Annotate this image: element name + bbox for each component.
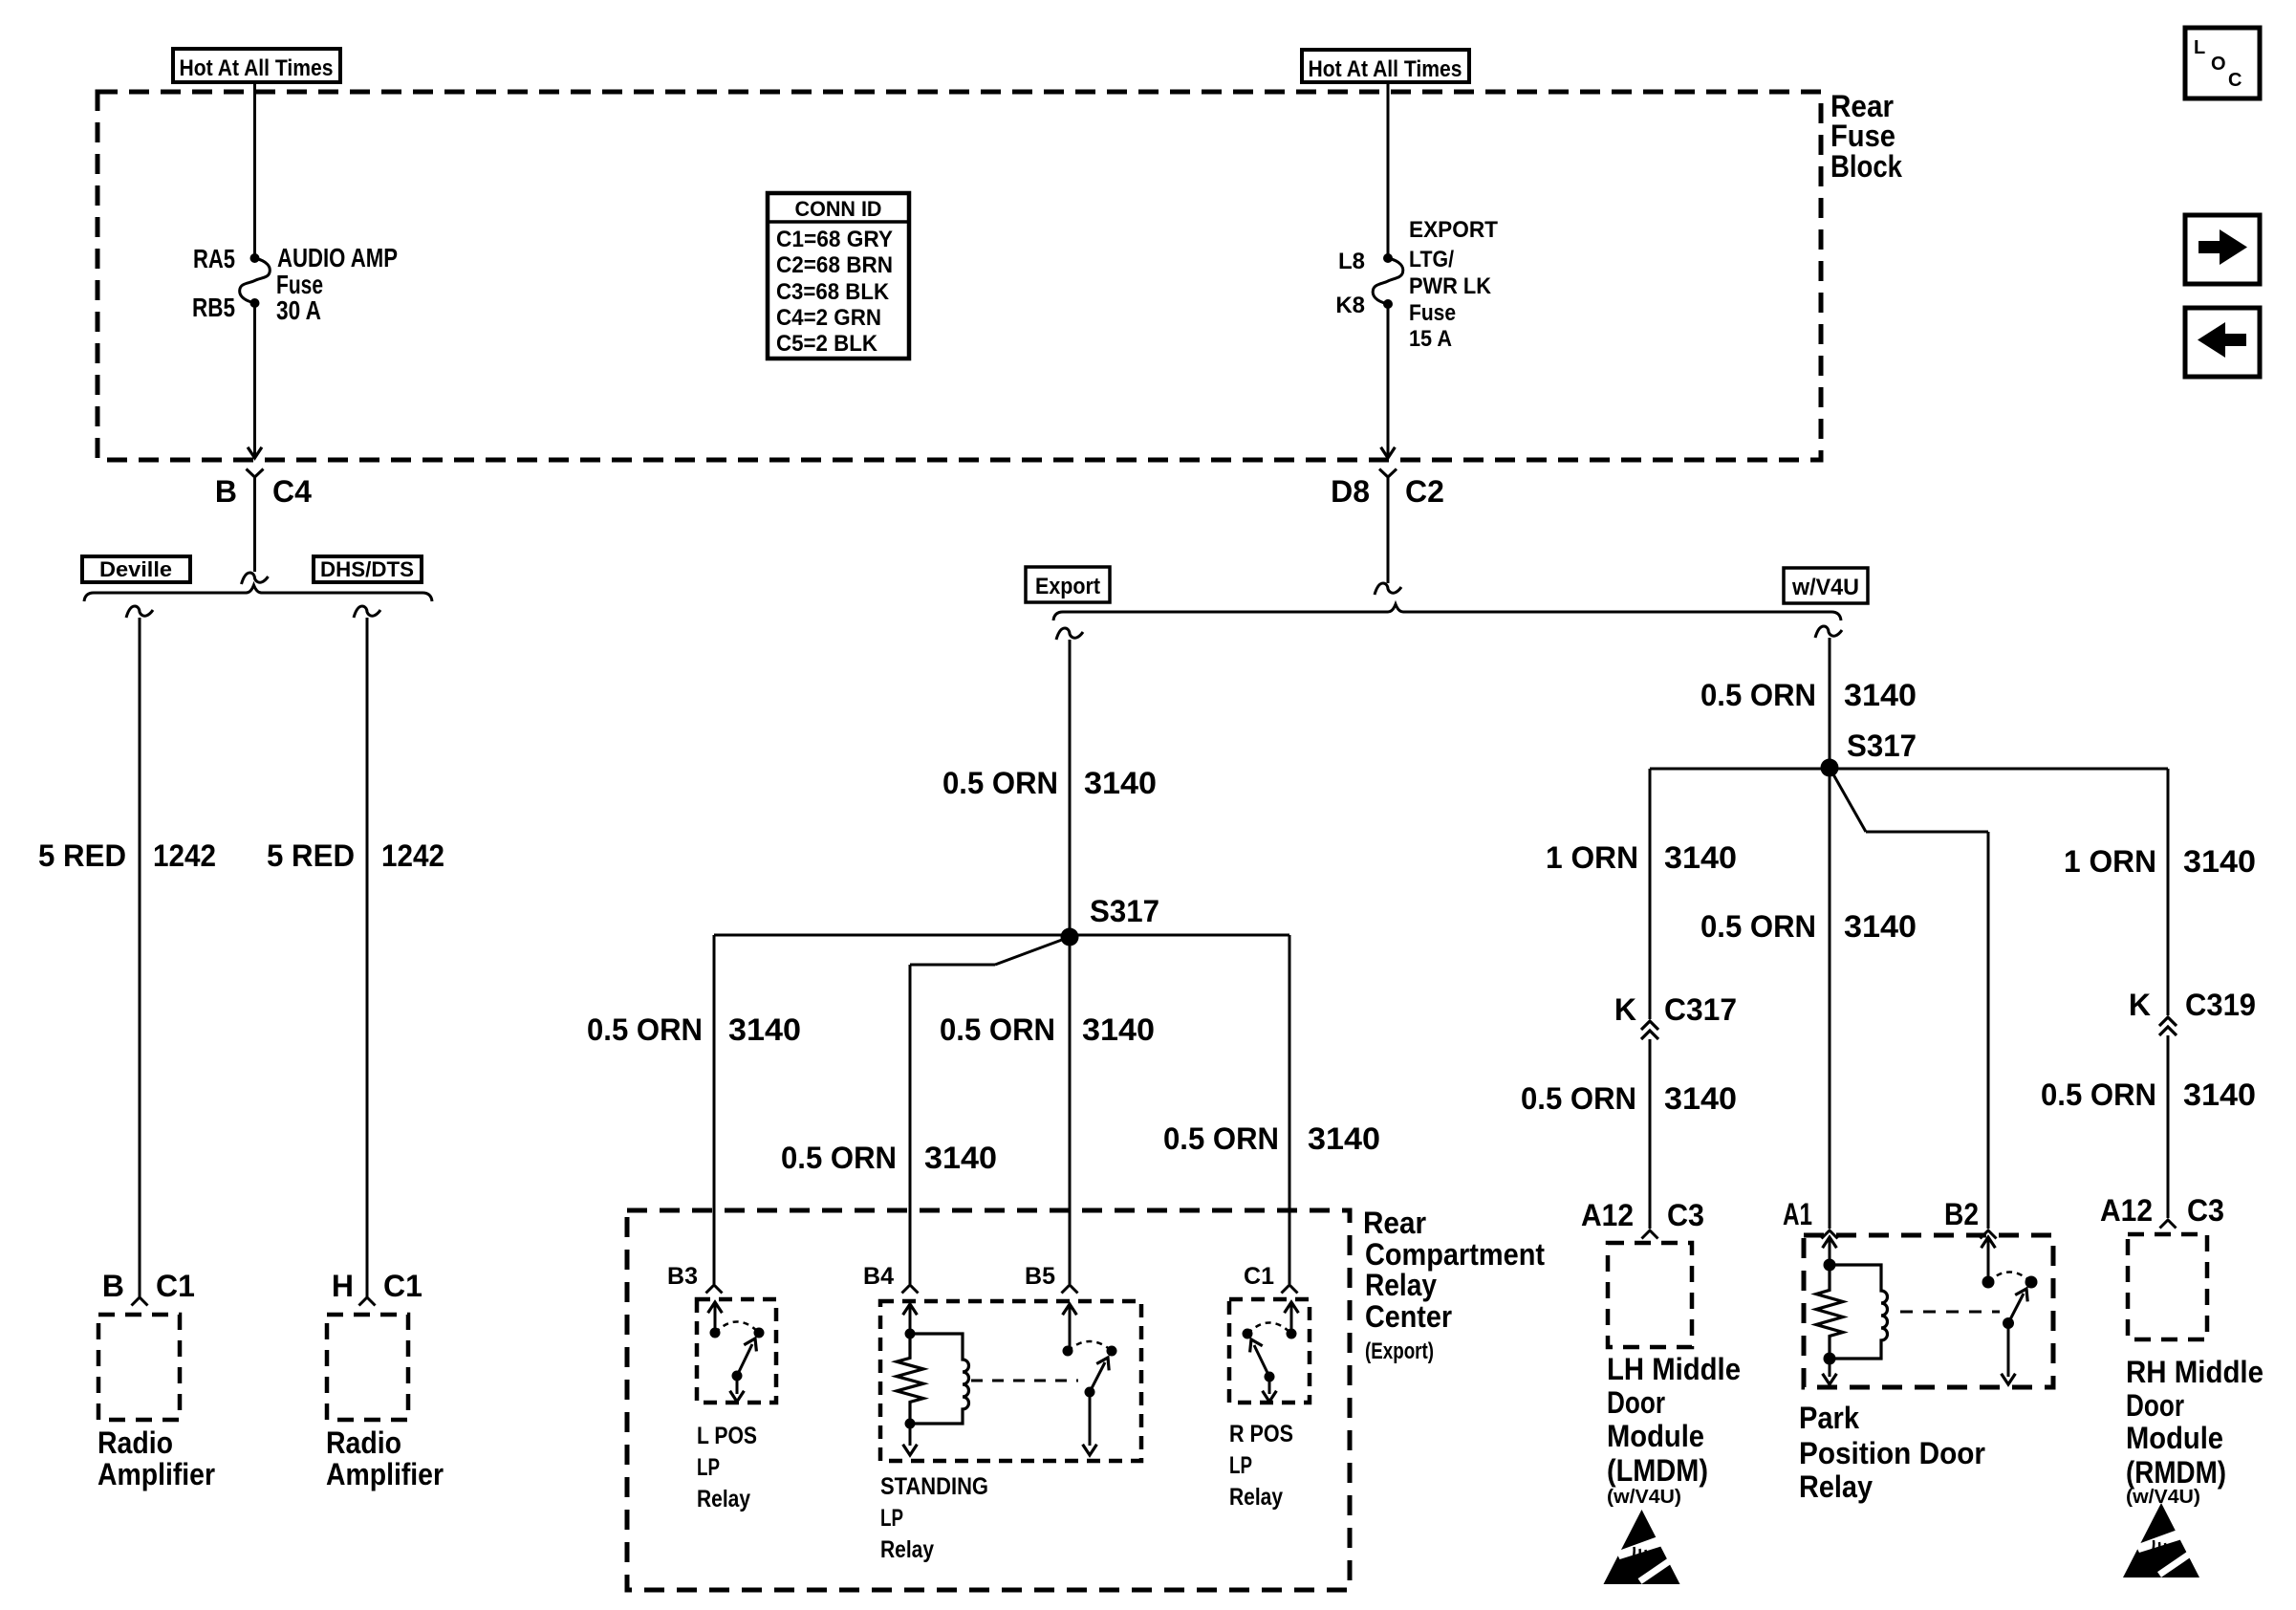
svg-text:0.5 ORN: 0.5 ORN [940,1012,1055,1047]
svg-text:LP: LP [880,1505,903,1532]
relay K-LPOS name [697,1423,757,1512]
svg-text:Hot At All Times: Hot At All Times [180,55,334,81]
svg-text:A12: A12 [2100,1193,2153,1228]
connector C1 pin B (male) [132,1297,148,1306]
label H | C1 (DHS/DTS) [332,1269,422,1303]
svg-text:Relay: Relay [697,1486,750,1512]
svg-text:3140: 3140 [2183,1077,2256,1112]
svg-text:Amplifier: Amplifier [97,1457,215,1491]
wire: right feed from Hot At All Times to fuse L8 [1387,82,1390,258]
svg-text:15 A: 15 A [1409,326,1452,352]
relay K-PARK coil [1830,1265,1888,1359]
svg-text:D8: D8 [1331,474,1370,509]
wire: S317 distribution bus (w/V4U) [1650,769,2168,1019]
option brace (Export / w/V4U) [1053,604,1841,620]
Radio Amplifier (Deville) dashed box [98,1315,180,1420]
svg-text:H: H [332,1269,354,1303]
RH Middle Door Module name [2126,1355,2264,1508]
svg-text:3140: 3140 [924,1141,997,1175]
svg-text:0.5 ORN: 0.5 ORN [1163,1121,1279,1156]
svg-text:C: C [2228,70,2242,91]
svg-text:AUDIO AMP: AUDIO AMP [277,243,398,272]
wire: left feed from Hot At All Times to fuse RA5 [253,82,256,258]
Radio Amplifier (Deville) name [97,1425,215,1491]
svg-text:1242: 1242 [153,838,216,873]
connector pin B3 (male) [667,1263,722,1294]
label 0.5 ORN 3140 (below C319) [2041,1077,2256,1112]
svg-text:RA5: RA5 [193,244,235,273]
svg-text:0.5 ORN: 0.5 ORN [2041,1077,2156,1112]
svg-text:C1: C1 [383,1269,422,1303]
relay K-LPOS feed contact [708,1302,723,1338]
fuse F1 AUDIO AMP 30 A [240,253,271,308]
svg-text:S317: S317 [1090,894,1159,928]
svg-text:PWR LK: PWR LK [1409,273,1492,299]
label B | C1 (Deville) [102,1269,195,1303]
label 0.5 ORN 3140 (B3 wire) [587,1012,801,1047]
svg-text:L: L [2194,37,2205,58]
svg-text:3140: 3140 [728,1012,801,1047]
svg-text:Door: Door [2126,1388,2184,1423]
svg-text:3140: 3140 [1308,1121,1380,1156]
svg-text:(LMDM): (LMDM) [1607,1453,1708,1488]
svg-text:0.5 ORN: 0.5 ORN [942,766,1058,800]
svg-text:RH Middle: RH Middle [2126,1355,2264,1389]
svg-text:R POS: R POS [1229,1421,1293,1447]
relay K-STANDING coil [910,1334,969,1424]
svg-text:Radio: Radio [97,1425,173,1460]
splice S317 (Export) [1061,894,1160,946]
svg-text:Module: Module [2126,1421,2223,1455]
label 5 RED 1242 (DHS/DTS branch) [267,838,444,873]
relay K-STANDING switch blade [1083,1358,1110,1455]
svg-text:w/V4U: w/V4U [1791,575,1859,600]
svg-text:1242: 1242 [381,838,444,873]
svg-text:0.5 ORN: 0.5 ORN [1700,909,1816,944]
svg-text:Door: Door [1607,1385,1665,1420]
CONN ID table [768,193,909,359]
svg-text:0.5 ORN: 0.5 ORN [781,1141,897,1175]
label 0.5 ORN 3140 (below C317) [1521,1081,1737,1116]
label D8 | C2 [1331,474,1444,509]
svg-text:(w/V4U): (w/V4U) [1607,1487,1681,1508]
wire: C4 down to option brace [242,488,269,584]
relay K-PARK actuation arc [1988,1273,2038,1289]
relay K-STANDING actuation arc [1068,1341,1117,1357]
svg-text:Relay: Relay [880,1536,934,1563]
fuse F2 EXPORT LTG/PWR LK 15 A [1373,253,1403,309]
label 0.5 ORN 3140 (Export feed) [942,766,1157,800]
svg-text:Position Door: Position Door [1799,1436,1985,1470]
svg-text:Radio: Radio [326,1425,401,1460]
relay K-LPOS actuation arc [715,1322,765,1338]
power feed label "Hot At All Times" (right) [1302,50,1469,82]
svg-text:S317: S317 [1847,729,1917,763]
page locator icon (L O C) [2185,28,2260,98]
svg-text:B: B [215,474,237,509]
fuse F2 value label [1409,217,1498,352]
svg-text:3140: 3140 [1664,1081,1737,1116]
svg-text:Relay: Relay [1799,1469,1873,1504]
relay K-RPOS switch blade [1250,1339,1277,1402]
option brace (Deville / DHS/DTS) [84,585,432,601]
connector C319 pin K (in-line) [2159,1017,2177,1218]
svg-text:A12: A12 [1581,1198,1634,1232]
label B | C4 [215,474,312,509]
option label "w/V4U" [1784,568,1868,603]
relay K-PARK switch feed [1982,1237,1996,1289]
relay K-PARK suppression resistor [1816,1265,1843,1359]
svg-text:C2=68 BRN: C2=68 BRN [776,252,893,278]
relay K-PARK switch blade [2002,1289,2028,1384]
svg-text:C1: C1 [1244,1263,1274,1290]
svg-text:L POS: L POS [697,1423,757,1449]
label K | C317 [1614,992,1737,1027]
LH Middle Door Module dashed box [1608,1243,1692,1347]
label 1 ORN 3140 (RMDM wire) [2064,844,2256,879]
svg-text:Block: Block [1830,149,1902,184]
label 0.5 ORN 3140 (B5 wire) [940,1012,1155,1047]
svg-text:5 RED: 5 RED [38,838,126,873]
wire: S317 distribution bus (Export) [714,935,1289,1284]
pin RB5 label [192,293,235,322]
relay K-STANDING coil feed [903,1304,918,1339]
pin RA5 label [193,244,235,273]
svg-text:C3: C3 [1667,1198,1704,1232]
label 1 ORN 3140 (LMDM wire) [1546,840,1737,875]
relay K-STANDING actuation link [971,1380,1078,1382]
relay K-STANDING dashed box [880,1301,1141,1461]
svg-text:STANDING: STANDING [880,1473,988,1500]
connector pin A1 (male) [1783,1197,1838,1239]
svg-text:Center: Center [1365,1299,1452,1334]
svg-text:B4: B4 [863,1263,894,1290]
svg-text:B: B [102,1269,124,1303]
svg-text:3140: 3140 [1084,766,1157,800]
wire: w/V4U branch down to splice S317 [1815,626,1842,768]
relay K-STANDING suppression resistor [897,1334,923,1424]
Rear Compartment Relay Center name [1363,1206,1545,1364]
connector C2 pin D8 (in-line) [1379,469,1397,489]
label 0.5 ORN 3140 (A1 wire) [1700,909,1917,944]
wire: fuse K8 down to fuse block edge [1381,304,1396,458]
svg-text:Rear: Rear [1363,1206,1426,1240]
svg-text:Relay: Relay [1229,1484,1283,1511]
wire: S317 straight branch to A1 [1829,768,1831,1229]
svg-text:C2: C2 [1405,474,1444,509]
connector pin B2 (male) [1944,1197,1997,1239]
connector pin B5 (male) [1025,1263,1077,1294]
svg-text:Hot At All Times: Hot At All Times [1309,56,1462,82]
svg-text:3140: 3140 [1664,840,1737,875]
relay K-LPOS switch blade [730,1338,757,1402]
wire: DHS/DTS branch to radio amplifier [354,606,380,1297]
connector C317 pin K (in-line) [1641,1021,1658,1229]
svg-text:3140: 3140 [1082,1012,1155,1047]
relay K-PARK coil feed [1823,1237,1837,1272]
svg-text:Module: Module [1607,1419,1704,1453]
svg-text:B2: B2 [1944,1197,1979,1231]
label 0.5 ORN 3140 (C1 wire) [1163,1121,1380,1156]
svg-text:Fuse: Fuse [1830,119,1895,153]
wire: Export branch down to splice S317 [1056,628,1083,937]
relay K-STANDING coil return [903,1419,918,1456]
ESD sensitivity symbol (RMDM) [2123,1503,2199,1577]
svg-text:EXPORT: EXPORT [1409,217,1498,243]
Rear Fuse Block name [1830,89,1902,184]
svg-text:O: O [2211,54,2226,75]
svg-text:1 ORN: 1 ORN [1546,840,1638,875]
relay K-RPOS actuation arc [1243,1323,1292,1339]
label 0.5 ORN 3140 (B4 wire) [781,1141,997,1175]
svg-text:Park: Park [1799,1401,1859,1435]
svg-text:1 ORN: 1 ORN [2064,844,2156,879]
label 0.5 ORN 3140 (w/V4U feed) [1700,678,1917,712]
svg-text:C3: C3 [2187,1193,2224,1228]
svg-text:3140: 3140 [1844,909,1917,944]
svg-text:Export: Export [1035,574,1100,599]
connector C1 pin H (male) [359,1297,376,1306]
svg-text:Amplifier: Amplifier [326,1457,444,1491]
connector pin A12 / C3 (RMDM) [2100,1193,2224,1229]
svg-text:Relay: Relay [1365,1268,1437,1302]
option label "Export" [1026,567,1110,602]
svg-text:(Export): (Export) [1365,1338,1434,1364]
svg-text:LP: LP [1229,1452,1252,1479]
svg-text:(w/V4U): (w/V4U) [2126,1487,2200,1508]
option label "Deville" [82,556,190,582]
svg-text:30 A: 30 A [276,295,321,325]
wire: fuse RB5 down to fuse block edge [248,303,262,458]
svg-text:Deville: Deville [99,557,172,581]
power feed label "Hot At All Times" (left) [173,49,340,82]
relay K-RPOS feed contact [1285,1302,1299,1339]
option label "DHS/DTS" [314,556,422,582]
svg-text:DHS/DTS: DHS/DTS [320,557,414,581]
relay K-STANDING name [880,1473,988,1563]
Radio Amplifier (DHS/DTS) dashed box [327,1315,408,1420]
svg-text:K: K [1614,992,1636,1027]
svg-text:C5=2 BLK: C5=2 BLK [776,331,878,357]
connector C4 pin B (in-line) [247,469,264,489]
Rear Fuse Block dashed enclosure [97,92,1821,460]
svg-text:B3: B3 [667,1263,698,1290]
svg-text:0.5 ORN: 0.5 ORN [1700,678,1816,712]
LH Middle Door Module name [1607,1352,1741,1508]
svg-text:LP: LP [697,1454,720,1481]
splice S317 (w/V4U) [1821,729,1917,777]
relay K-RPOS name [1229,1421,1293,1511]
svg-text:C4=2 GRN: C4=2 GRN [776,305,881,331]
svg-text:C317: C317 [1664,992,1737,1027]
pin L8 label [1338,249,1365,274]
svg-text:C319: C319 [2185,988,2256,1022]
relay K-PARK actuation link [1900,1311,2000,1314]
svg-text:Compartment: Compartment [1365,1237,1545,1272]
wire: Deville branch to radio amplifier [126,606,153,1297]
label 5 RED 1242 (Deville branch) [38,838,216,873]
svg-text:C4: C4 [272,474,312,509]
Rear Compartment Relay Center dashed enclosure [627,1210,1350,1590]
svg-text:B5: B5 [1025,1263,1055,1290]
svg-text:3140: 3140 [1844,678,1917,712]
label K | C319 [2129,988,2256,1022]
svg-text:LTG/: LTG/ [1409,247,1454,272]
svg-text:(RMDM): (RMDM) [2126,1455,2226,1490]
wire: C2 down to option brace [1375,488,1401,595]
svg-text:0.5 ORN: 0.5 ORN [1521,1081,1636,1116]
previous-page arrow icon [2185,308,2260,377]
svg-text:5 RED: 5 RED [267,838,355,873]
fuse F1 value label [276,243,398,325]
connector pin A12 / C3 (LMDM) [1581,1198,1704,1239]
relay K-PARK name [1799,1401,1985,1504]
svg-text:L8: L8 [1338,249,1365,274]
svg-text:0.5 ORN: 0.5 ORN [587,1012,703,1047]
wire: S317 diagonal branch to B2 [1830,768,1988,1229]
svg-text:C1: C1 [156,1269,195,1303]
svg-text:K8: K8 [1335,293,1365,318]
wire: S317 straight branch to B5 [1069,937,1072,1284]
svg-text:K: K [2129,988,2151,1022]
connector pin B4 (male) [863,1263,918,1294]
relay K-RPOS dashed box [1229,1299,1310,1403]
relay K-LPOS dashed box [697,1299,776,1403]
ESD sensitivity symbol (LMDM) [1604,1510,1680,1584]
pin K8 label [1335,293,1365,318]
svg-text:Fuse: Fuse [1409,300,1456,326]
svg-text:C1=68 GRY: C1=68 GRY [776,227,893,252]
relay K-PARK dashed box [1804,1235,2053,1387]
svg-text:A1: A1 [1783,1197,1812,1231]
svg-text:CONN ID: CONN ID [795,197,882,221]
svg-text:C3=68 BLK: C3=68 BLK [776,279,890,305]
svg-text:LH Middle: LH Middle [1607,1352,1741,1386]
RH Middle Door Module dashed box [2128,1234,2207,1339]
svg-text:RB5: RB5 [192,293,235,322]
connector pin C1 (male) [1244,1263,1297,1294]
relay K-PARK coil return [1823,1353,1837,1385]
relay K-STANDING switch feed [1063,1304,1077,1357]
Radio Amplifier (DHS/DTS) name [326,1425,444,1491]
svg-text:3140: 3140 [2183,844,2256,879]
wire: S317 diagonal branch to B4 [910,937,1070,1284]
next-page arrow icon [2185,215,2260,284]
